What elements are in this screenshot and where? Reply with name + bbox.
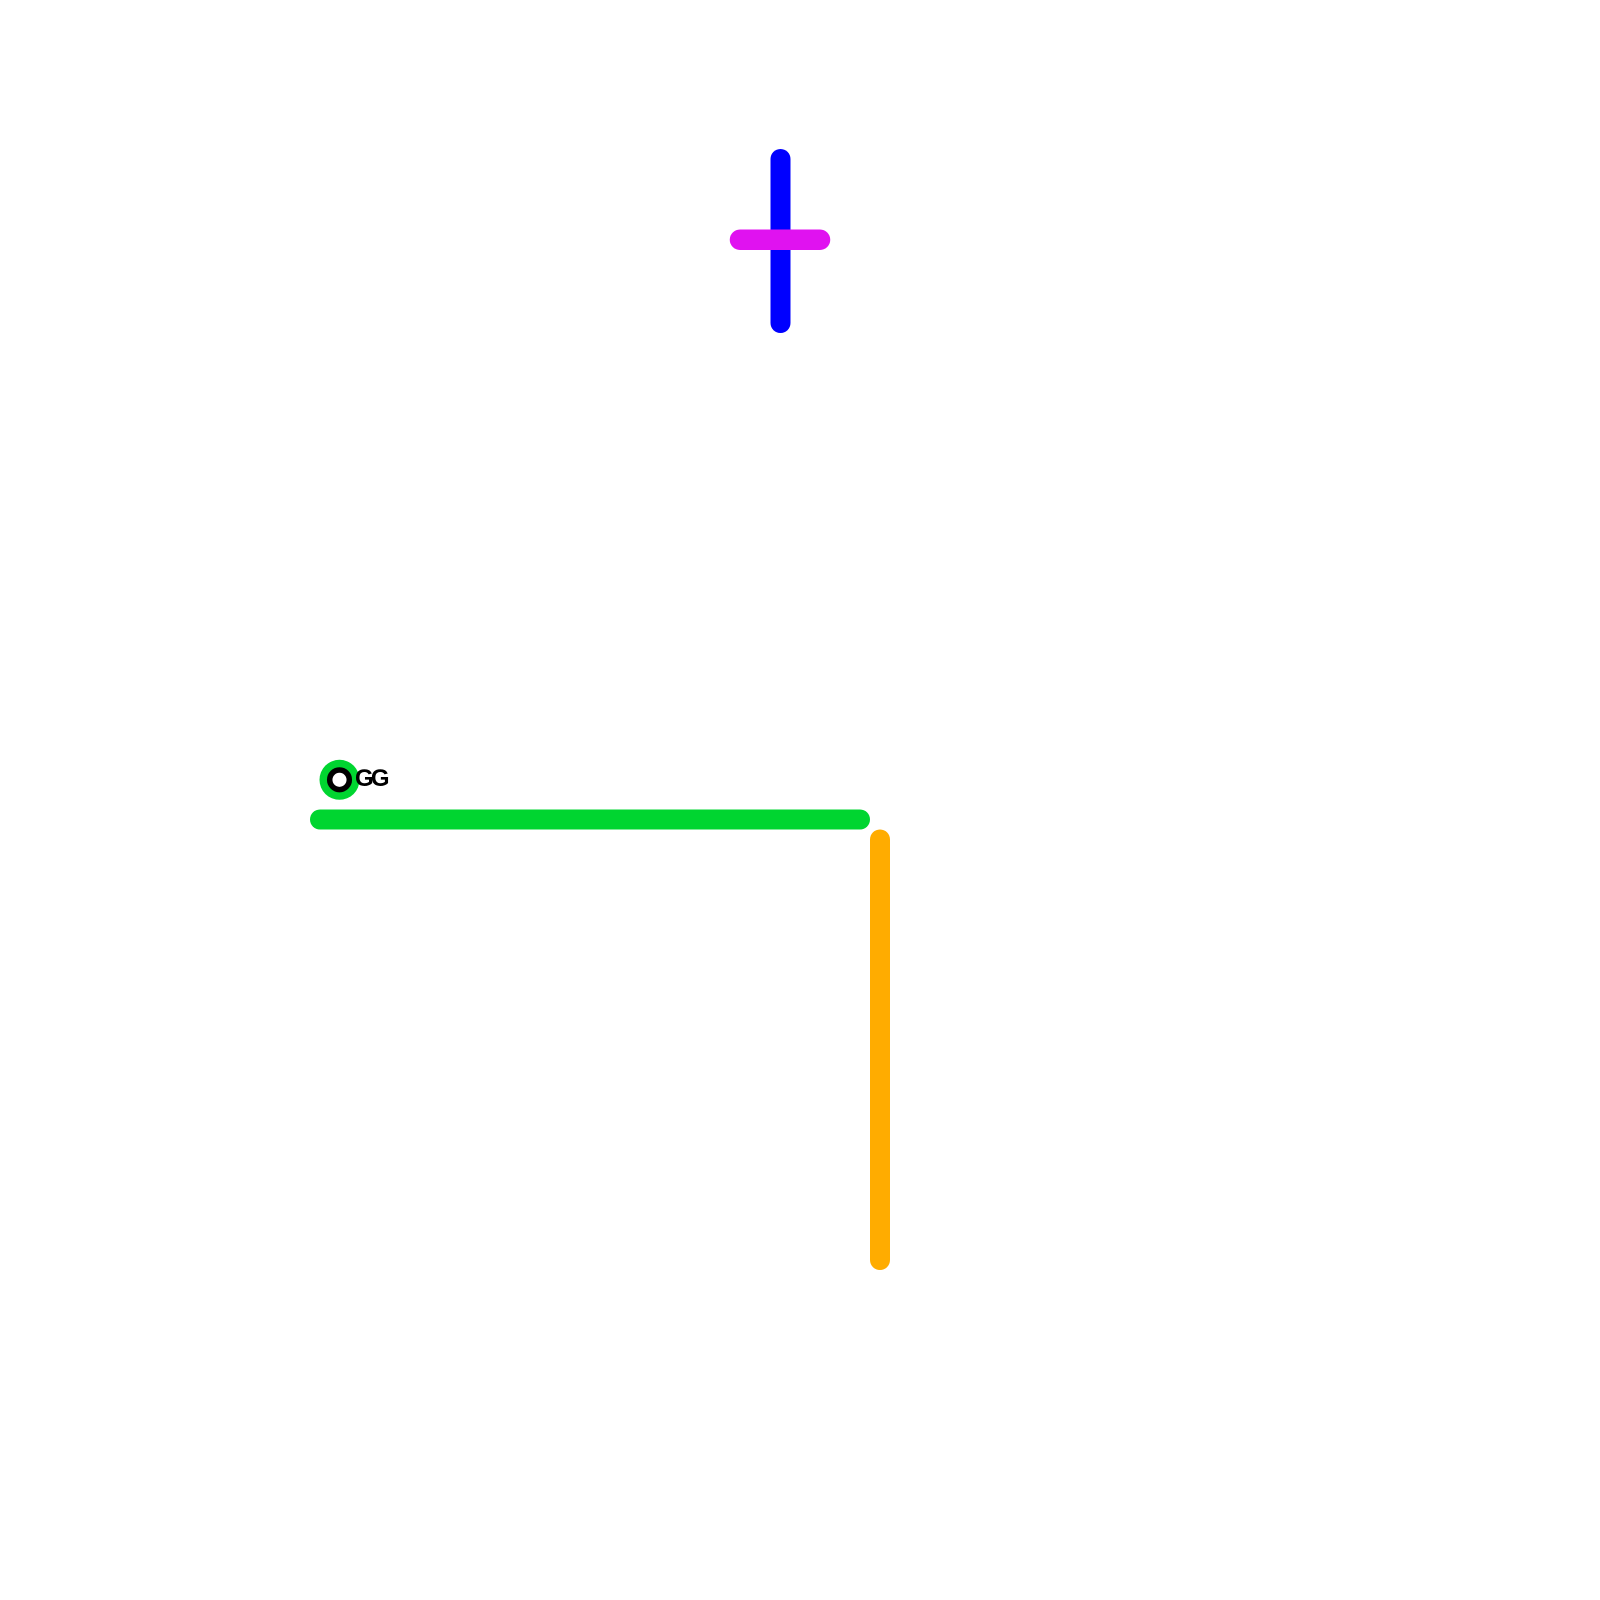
blue line: [771, 159, 791, 323]
station GG marker: [320, 760, 360, 800]
orange line: [870, 840, 890, 1261]
magenta line: [740, 229, 820, 250]
svg-text:GG: GG: [355, 765, 389, 792]
green line: [320, 810, 860, 830]
